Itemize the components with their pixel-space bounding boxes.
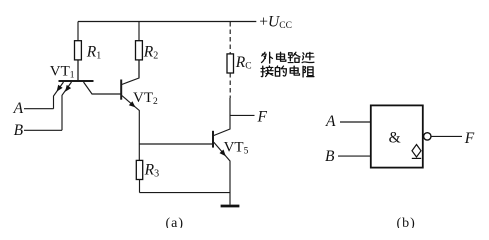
char 接 [261, 66, 273, 77]
resistor RC external [227, 22, 234, 98]
annotation Chinese line 1: 外电路连 [262, 52, 314, 63]
resistor R3 [136, 160, 142, 192]
char 路 [288, 52, 300, 62]
char 的 [275, 66, 286, 76]
char 电 [277, 52, 286, 61]
svg-text:&: & [389, 130, 401, 147]
resistor R2 [136, 22, 143, 78]
ground [221, 205, 240, 208]
char 外 [262, 52, 273, 63]
svg-text:RC: RC [235, 54, 252, 72]
gate input B wire [338, 155, 370, 157]
wire output F [230, 114, 255, 116]
gate output F wire [431, 135, 462, 137]
input A wire [24, 108, 54, 110]
svg-text:R3: R3 [144, 161, 159, 179]
input B wire [24, 129, 62, 131]
wire R3 to VT5 emitter [140, 192, 231, 194]
annotation Chinese line 2: 接的电阻 [261, 66, 314, 77]
and-gate box [371, 105, 423, 167]
svg-text:F: F [257, 108, 268, 125]
svg-text:B: B [325, 148, 335, 165]
wire +Ucc rail [78, 21, 256, 23]
svg-text:R1: R1 [86, 44, 101, 62]
resistor R1 [75, 22, 82, 81]
svg-text:A: A [325, 113, 336, 130]
char 电 [290, 66, 299, 75]
transistor VT5 [213, 98, 230, 205]
char 阻 [303, 66, 314, 77]
svg-text:VT5: VT5 [224, 140, 249, 157]
transistor VT2 [121, 60, 139, 160]
svg-text:(a): (a) [166, 216, 185, 228]
open-collector diamond symbol [412, 145, 421, 159]
char 连 [302, 52, 314, 62]
svg-text:F: F [464, 130, 475, 147]
svg-text:VT2: VT2 [133, 90, 158, 107]
svg-text:B: B [14, 122, 24, 139]
transistor VT1 (multi-emitter) [54, 60, 122, 130]
inversion bubble [424, 133, 431, 140]
svg-text:+UCC: +UCC [259, 14, 292, 32]
svg-text:(b): (b) [397, 216, 416, 228]
svg-text:VT1: VT1 [50, 64, 75, 81]
svg-text:R2: R2 [143, 44, 158, 62]
svg-text:A: A [13, 100, 24, 117]
gate input A wire [340, 121, 370, 123]
wire VT2 emitter to VT5 base [139, 143, 212, 145]
